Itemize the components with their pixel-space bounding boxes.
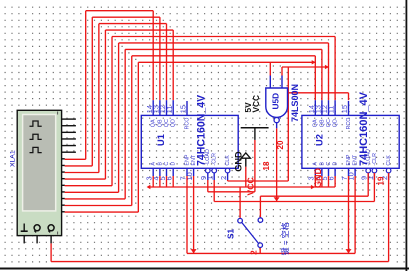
svg-text:2: 2 [250,250,259,255]
svg-text:RCO: RCO [184,118,190,130]
svg-text:QD: QD [333,119,339,127]
svg-text:18: 18 [262,161,271,170]
svg-text:CLK: CLK [386,155,392,166]
svg-text:U2: U2 [315,134,325,146]
svg-text:GND: GND [313,168,323,189]
svg-text:11: 11 [165,106,174,114]
svg-text:VCC: VCC [246,177,256,195]
svg-text:74HC160N_4V: 74HC160N_4V [195,95,207,166]
svg-text:11: 11 [327,106,336,114]
svg-text:C: C [326,162,332,166]
svg-text:D: D [171,162,177,166]
svg-text:A: A [151,162,157,166]
svg-text:QA: QA [313,119,319,127]
svg-text:-CLR: -CLR [212,153,218,166]
svg-text:VCC: VCC [251,95,261,113]
svg-text:QB: QB [157,119,163,127]
svg-text:15: 15 [179,105,188,113]
svg-text:XLA1: XLA1 [9,150,16,167]
svg-text:QC: QC [326,119,332,127]
svg-text:2: 2 [219,176,228,180]
svg-text:19: 19 [377,176,386,185]
svg-text:74HC160N_4V: 74HC160N_4V [358,91,370,166]
svg-text:S1: S1 [225,228,235,239]
svg-text:B: B [319,162,325,166]
svg-text:20: 20 [276,140,285,149]
svg-text:1: 1 [366,176,375,180]
svg-text:U5D: U5D [271,93,281,110]
svg-text:1: 1 [206,176,215,180]
svg-text:D: D [333,162,339,166]
svg-text:QB: QB [319,119,325,127]
svg-text:QD: QD [171,119,177,127]
svg-text:键 = 空格: 键 = 空格 [280,222,290,255]
svg-text:15: 15 [340,105,349,113]
svg-text:C: C [164,162,170,166]
svg-text:74LS00N: 74LS00N [290,84,300,122]
svg-text:RCO: RCO [346,118,352,130]
svg-text:U1: U1 [156,134,166,146]
svg-text:ENP: ENP [346,154,352,165]
svg-text:CLK: CLK [225,155,231,166]
svg-text:A: A [313,162,319,166]
svg-text:QA: QA [151,119,157,127]
svg-text:GND: GND [233,151,243,172]
svg-text:-CLR: -CLR [372,153,378,166]
svg-text:B: B [157,162,163,166]
svg-text:ENP: ENP [184,154,190,165]
svg-text:QC: QC [164,119,170,127]
